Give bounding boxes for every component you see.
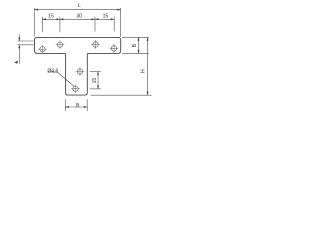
svg-text:15: 15 <box>92 78 98 84</box>
svg-text:15: 15 <box>103 13 109 19</box>
svg-text:L: L <box>78 3 81 9</box>
svg-text:H: H <box>141 69 147 73</box>
svg-text:Ø4,6: Ø4,6 <box>47 68 58 74</box>
svg-text:30: 30 <box>77 13 83 19</box>
svg-text:15: 15 <box>48 13 54 19</box>
